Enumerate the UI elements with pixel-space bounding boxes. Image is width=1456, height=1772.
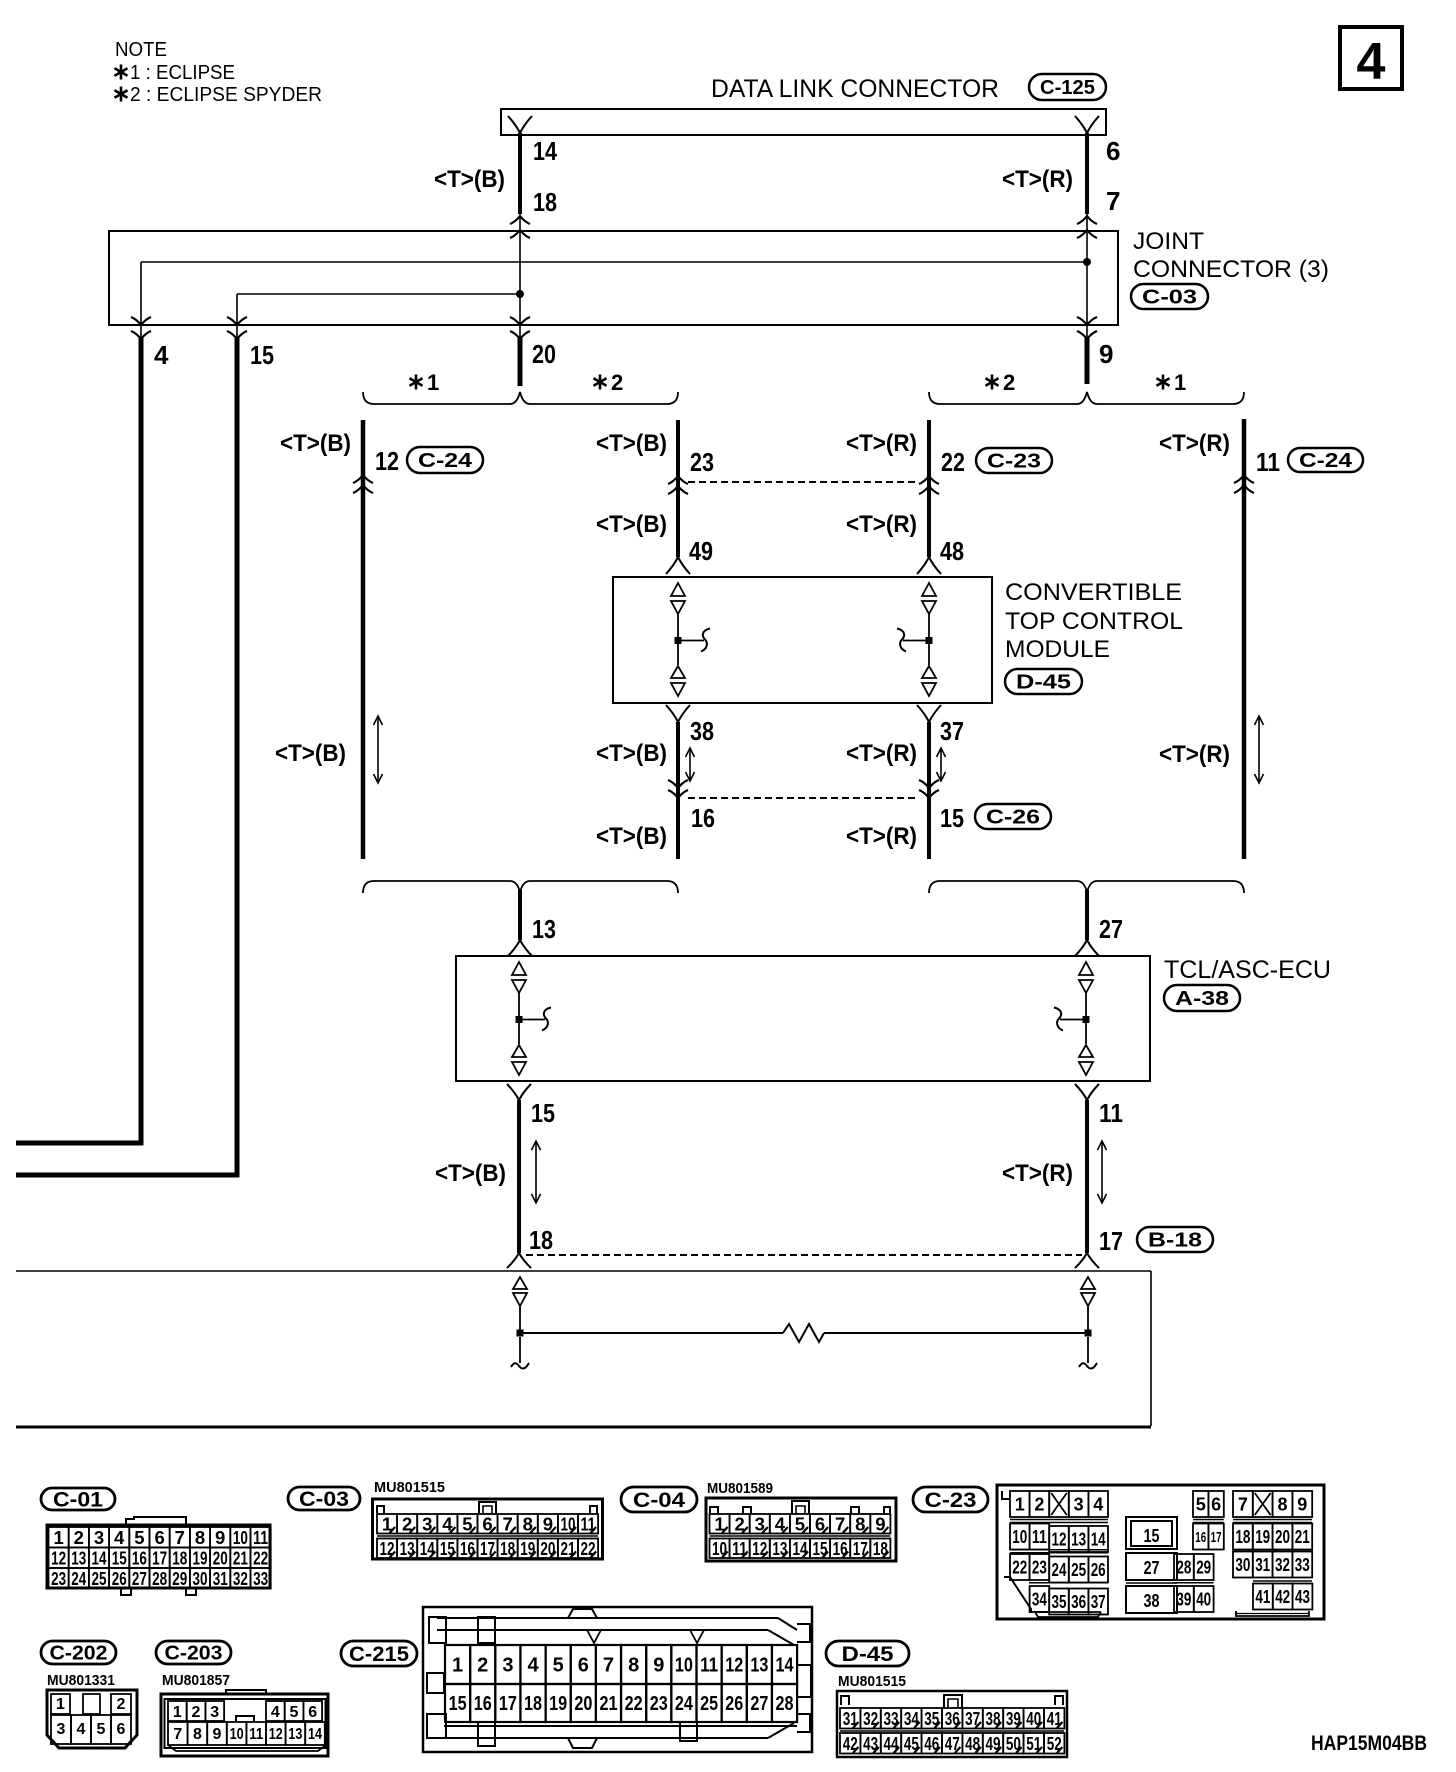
connector label C-01 bbox=[41, 1488, 115, 1510]
svg-text:1: 1 bbox=[427, 370, 439, 395]
svg-text:14: 14 bbox=[1091, 1529, 1106, 1549]
twisted pair arrow bbox=[1101, 1141, 1103, 1203]
svg-text:33: 33 bbox=[1295, 1555, 1310, 1575]
wire end squiggle right bbox=[1079, 1363, 1097, 1369]
svg-text:20: 20 bbox=[532, 339, 556, 369]
svg-text:JOINT: JOINT bbox=[1133, 228, 1204, 255]
svg-text:15: 15 bbox=[940, 803, 964, 833]
svg-text:<T>(B): <T>(B) bbox=[435, 1160, 506, 1187]
svg-text:9: 9 bbox=[653, 1655, 664, 1677]
svg-text:MODULE: MODULE bbox=[1005, 636, 1110, 663]
svg-text:15: 15 bbox=[250, 340, 274, 370]
shield terminal pin49 inside D-45 bbox=[671, 583, 710, 696]
svg-text:48: 48 bbox=[940, 536, 964, 566]
svg-text:7: 7 bbox=[1106, 186, 1120, 216]
connector chevrons C-03 pin7 bbox=[1077, 216, 1097, 224]
svg-text:6: 6 bbox=[1106, 136, 1120, 166]
fork pin 48 bbox=[917, 557, 929, 574]
svg-text:4: 4 bbox=[77, 1721, 86, 1738]
svg-text:C-03: C-03 bbox=[1142, 287, 1197, 309]
svg-text:8: 8 bbox=[628, 1655, 639, 1677]
connector label C-24 bbox=[1288, 448, 1363, 472]
connector label C-26 bbox=[975, 804, 1051, 829]
connector C-125 box bbox=[501, 109, 1106, 135]
svg-text:2: 2 bbox=[1003, 370, 1015, 395]
connector label C-03 bbox=[288, 1487, 360, 1510]
svg-text:<T>(R): <T>(R) bbox=[846, 823, 917, 850]
fork pin 38 bbox=[666, 705, 678, 722]
svg-text:19: 19 bbox=[549, 1693, 567, 1715]
svg-text:42: 42 bbox=[1275, 1587, 1290, 1607]
svg-text:37: 37 bbox=[940, 716, 964, 746]
svg-text:37: 37 bbox=[1091, 1592, 1106, 1612]
svg-text:4: 4 bbox=[1093, 1494, 1103, 1514]
svg-text:14: 14 bbox=[92, 1547, 108, 1568]
svg-text:MU801331: MU801331 bbox=[47, 1672, 115, 1689]
svg-text:TOP CONTROL: TOP CONTROL bbox=[1005, 608, 1183, 635]
joint bus wire upper bbox=[141, 261, 1087, 263]
svg-text:21: 21 bbox=[599, 1693, 617, 1715]
svg-text:25: 25 bbox=[700, 1693, 718, 1715]
svg-text:28: 28 bbox=[1176, 1557, 1191, 1577]
brace left top bbox=[363, 392, 678, 404]
label CONVERTIBLE TOP CONTROL MODULE bbox=[1005, 579, 1183, 663]
connector C-202 pinout bbox=[47, 1690, 137, 1748]
connector chevrons pin22 bbox=[919, 476, 939, 484]
svg-text:23: 23 bbox=[650, 1693, 668, 1715]
svg-text:8: 8 bbox=[193, 1726, 202, 1743]
svg-text:MU801515: MU801515 bbox=[838, 1673, 906, 1690]
svg-text:20: 20 bbox=[574, 1693, 592, 1715]
svg-text:25: 25 bbox=[92, 1568, 107, 1589]
svg-text:11: 11 bbox=[253, 1527, 268, 1548]
svg-text:30: 30 bbox=[1235, 1555, 1250, 1575]
svg-text:4: 4 bbox=[1357, 33, 1386, 91]
svg-text:3: 3 bbox=[94, 1527, 104, 1548]
svg-text:2: 2 bbox=[611, 370, 623, 395]
svg-text:3: 3 bbox=[210, 1704, 219, 1721]
twisted pair arrow bbox=[689, 748, 691, 781]
wire end squiggle left bbox=[511, 1363, 529, 1369]
svg-text:17: 17 bbox=[152, 1547, 167, 1568]
svg-text:22: 22 bbox=[1012, 1557, 1027, 1577]
svg-text:4: 4 bbox=[527, 1655, 539, 1677]
joint bus wire lower bbox=[237, 293, 520, 295]
svg-text:18: 18 bbox=[529, 1225, 553, 1255]
connector chevrons C-03 pin18 bbox=[510, 216, 530, 224]
svg-text:7: 7 bbox=[173, 1726, 182, 1743]
label JOINT CONNECTOR (3) bbox=[1133, 228, 1329, 283]
svg-text:23: 23 bbox=[1032, 1557, 1047, 1577]
svg-text:22: 22 bbox=[625, 1693, 643, 1715]
svg-text:10: 10 bbox=[230, 1726, 244, 1743]
svg-text:7: 7 bbox=[1238, 1494, 1248, 1514]
svg-text:43: 43 bbox=[1295, 1587, 1310, 1607]
svg-text:<T>(R): <T>(R) bbox=[846, 740, 917, 767]
svg-text:C-03: C-03 bbox=[299, 1488, 349, 1511]
wire A-38 pin15 to pin18 <T>(B) bbox=[517, 1100, 521, 1253]
svg-text:29: 29 bbox=[1196, 1557, 1211, 1577]
svg-text:8: 8 bbox=[195, 1527, 205, 1548]
connector label C-23 bbox=[976, 448, 1052, 473]
svg-text:C-215: C-215 bbox=[349, 1643, 409, 1666]
svg-text:1: 1 bbox=[1015, 1494, 1025, 1514]
svg-text:C-125: C-125 bbox=[1040, 77, 1095, 99]
svg-text:<T>(B): <T>(B) bbox=[596, 430, 667, 457]
connector chevrons pin23 bbox=[668, 476, 688, 484]
connector chevrons pin15 C-26 bbox=[919, 780, 939, 788]
terminating resistor bbox=[783, 1324, 824, 1342]
fork pin 37 bbox=[917, 705, 929, 722]
svg-text:6: 6 bbox=[578, 1655, 589, 1677]
svg-text:<T>(B): <T>(B) bbox=[596, 511, 667, 538]
wire inside C-03 right branch bbox=[1086, 214, 1088, 340]
convertible top control module D-45 box bbox=[613, 577, 992, 703]
svg-text:12: 12 bbox=[269, 1726, 283, 1743]
svg-text:24: 24 bbox=[71, 1568, 87, 1589]
svg-text:24: 24 bbox=[1052, 1560, 1067, 1580]
svg-text:4: 4 bbox=[154, 340, 169, 370]
note asterisk 2 bbox=[114, 87, 127, 102]
fork pin 18 bbox=[507, 1253, 519, 1268]
svg-text:CONVERTIBLE: CONVERTIBLE bbox=[1005, 579, 1182, 606]
svg-text:32: 32 bbox=[1275, 1555, 1290, 1575]
svg-text:31: 31 bbox=[1255, 1555, 1270, 1575]
connector label C-23 bbox=[913, 1487, 988, 1512]
dashed link pin18-pin17 B-18 bbox=[526, 1254, 1082, 1256]
svg-text:14: 14 bbox=[533, 136, 557, 166]
connector chevrons C-03 pin9 bbox=[1077, 317, 1097, 325]
fork pin 14 bbox=[508, 116, 520, 133]
svg-text:1: 1 bbox=[53, 1527, 63, 1548]
svg-text:<T>(B): <T>(B) bbox=[275, 740, 346, 767]
svg-text:11: 11 bbox=[1256, 447, 1280, 477]
svg-text:5: 5 bbox=[134, 1527, 144, 1548]
connector label D-45 bbox=[826, 1641, 909, 1666]
connector label A-38 bbox=[1164, 985, 1240, 1011]
svg-text:2 : ECLIPSE SPYDER: 2 : ECLIPSE SPYDER bbox=[130, 84, 322, 106]
svg-text:11: 11 bbox=[1099, 1098, 1123, 1128]
wire to A-38 pin27 bbox=[1085, 890, 1089, 940]
svg-text:13: 13 bbox=[1071, 1529, 1086, 1549]
svg-text:<T>(R): <T>(R) bbox=[1002, 166, 1073, 193]
svg-text:NOTE: NOTE bbox=[115, 39, 167, 61]
svg-text:15: 15 bbox=[449, 1693, 467, 1715]
svg-text:C-24: C-24 bbox=[1299, 450, 1353, 472]
connector chevrons C-24 pin12 bbox=[353, 475, 373, 483]
svg-text:7: 7 bbox=[603, 1655, 614, 1677]
svg-text:<T>(B): <T>(B) bbox=[596, 823, 667, 850]
svg-text:14: 14 bbox=[308, 1726, 322, 1743]
svg-text:<T>(R): <T>(R) bbox=[1002, 1160, 1073, 1187]
wire A-38 pin11 to pin17 <T>(R) bbox=[1085, 1100, 1089, 1253]
connector D-45 pinout bbox=[837, 1691, 1067, 1757]
svg-text:22: 22 bbox=[253, 1547, 268, 1568]
terminating resistor box bbox=[16, 1271, 1151, 1427]
connector chevrons C-03 pin4 bbox=[131, 317, 151, 325]
svg-text:14: 14 bbox=[776, 1655, 795, 1677]
joint connector C-03 box bbox=[109, 231, 1118, 325]
svg-text:41: 41 bbox=[1255, 1587, 1270, 1607]
svg-text:TCL/ASC-ECU: TCL/ASC-ECU bbox=[1164, 956, 1331, 984]
svg-text:<T>(B): <T>(B) bbox=[596, 740, 667, 767]
twisted pair arrow bbox=[940, 748, 942, 781]
svg-text:17: 17 bbox=[1211, 1529, 1222, 1546]
fork pin 27 bbox=[1075, 940, 1087, 956]
connector chevrons C-03 pin20 bbox=[510, 317, 530, 325]
connector C-04 pinout bbox=[706, 1498, 896, 1561]
svg-text:12: 12 bbox=[725, 1655, 743, 1677]
svg-text:38: 38 bbox=[1144, 1591, 1160, 1611]
wire to A-38 pin13 bbox=[518, 890, 522, 940]
shield terminal left in resistor box bbox=[513, 1277, 527, 1363]
svg-text:21: 21 bbox=[1295, 1527, 1310, 1547]
svg-text:<T>(R): <T>(R) bbox=[846, 511, 917, 538]
svg-text:13: 13 bbox=[71, 1547, 86, 1568]
svg-text:<T>(B): <T>(B) bbox=[434, 166, 505, 193]
svg-text:11: 11 bbox=[1032, 1527, 1047, 1547]
connector C-203 pinout bbox=[161, 1690, 328, 1756]
fork pin 11 bbox=[1075, 1084, 1087, 1100]
wire DLC pin6 to C-03 pin7 <T>(R) bbox=[1085, 133, 1089, 214]
note text bbox=[115, 39, 322, 106]
svg-text:28: 28 bbox=[152, 1568, 167, 1589]
svg-text:27: 27 bbox=[1099, 914, 1123, 944]
svg-text:25: 25 bbox=[1071, 1560, 1086, 1580]
svg-text:15: 15 bbox=[531, 1098, 555, 1128]
svg-text:20: 20 bbox=[213, 1547, 228, 1568]
shield terminal pin48 inside D-45 bbox=[897, 583, 936, 696]
svg-text:CONNECTOR (3): CONNECTOR (3) bbox=[1133, 256, 1329, 283]
svg-text:C-23: C-23 bbox=[925, 1489, 977, 1512]
svg-text:28: 28 bbox=[776, 1693, 794, 1715]
connector C-01 pinout bbox=[47, 1517, 270, 1595]
svg-text:C-203: C-203 bbox=[165, 1643, 223, 1665]
connector label B-18 bbox=[1137, 1227, 1213, 1252]
svg-text:26: 26 bbox=[112, 1568, 127, 1589]
svg-text:MU801515: MU801515 bbox=[374, 1479, 445, 1496]
svg-text:14: 14 bbox=[792, 1538, 808, 1559]
svg-text:13: 13 bbox=[750, 1655, 768, 1677]
connector label C-24 bbox=[407, 447, 483, 473]
svg-text:4: 4 bbox=[114, 1527, 125, 1548]
svg-text:10: 10 bbox=[233, 1527, 248, 1548]
wire pin37 to pin15 <T>(R) bbox=[927, 722, 931, 859]
note asterisk 1 bbox=[114, 65, 127, 80]
svg-text:<T>(B): <T>(B) bbox=[280, 430, 351, 457]
shield terminal right in resistor box bbox=[1081, 1277, 1095, 1363]
dashed link pin23-pin22 bbox=[688, 481, 919, 483]
svg-text:23: 23 bbox=[690, 447, 714, 477]
svg-text:19: 19 bbox=[1255, 1527, 1270, 1547]
svg-text:2: 2 bbox=[477, 1655, 488, 1677]
brace left bottom bbox=[363, 881, 678, 893]
svg-text:10: 10 bbox=[1012, 1527, 1027, 1547]
svg-text:16: 16 bbox=[474, 1693, 492, 1715]
svg-text:17: 17 bbox=[1099, 1226, 1123, 1256]
svg-text:18: 18 bbox=[533, 187, 557, 217]
svg-text:B-18: B-18 bbox=[1148, 1230, 1202, 1252]
svg-text:HAP15M04BB: HAP15M04BB bbox=[1311, 1732, 1427, 1755]
svg-text:9: 9 bbox=[215, 1527, 225, 1548]
svg-text:C-23: C-23 bbox=[987, 451, 1041, 473]
svg-text:18: 18 bbox=[524, 1693, 542, 1715]
connector label C-215 bbox=[341, 1641, 417, 1666]
svg-text:3: 3 bbox=[1074, 1494, 1084, 1514]
connector chevrons C-03 pin15 bbox=[227, 317, 247, 325]
connector chevrons C-24 pin11 bbox=[1234, 475, 1254, 483]
svg-text:5: 5 bbox=[97, 1721, 106, 1738]
fork pin 6 bbox=[1075, 116, 1087, 133]
svg-text:C-24: C-24 bbox=[418, 450, 473, 472]
svg-text:MU801589: MU801589 bbox=[707, 1480, 773, 1497]
svg-text:13: 13 bbox=[532, 914, 556, 944]
connector C-03 pinout bbox=[373, 1499, 603, 1559]
svg-text:C-26: C-26 bbox=[986, 807, 1040, 829]
svg-text:30: 30 bbox=[193, 1568, 208, 1589]
svg-text:D-45: D-45 bbox=[1016, 672, 1071, 694]
wire inside C-03 left branch bbox=[519, 214, 521, 340]
svg-text:C-01: C-01 bbox=[53, 1489, 103, 1512]
svg-text:38: 38 bbox=[690, 716, 714, 746]
variant label *1 right bbox=[1156, 375, 1169, 390]
wire C-03 pin4 bus to left edge bbox=[16, 338, 141, 1143]
svg-text:6: 6 bbox=[308, 1704, 317, 1721]
variant label *2 left bbox=[593, 375, 606, 390]
shield terminal pin27 inside A-38 bbox=[1054, 962, 1093, 1075]
svg-text:9: 9 bbox=[1099, 339, 1113, 369]
svg-text:A-38: A-38 bbox=[1175, 988, 1229, 1010]
svg-text:22: 22 bbox=[941, 447, 965, 477]
svg-text:26: 26 bbox=[1091, 1560, 1106, 1580]
svg-text:19: 19 bbox=[193, 1547, 208, 1568]
wire pin22 <T>(R) eclipse spyder upper bbox=[927, 420, 931, 557]
wire C-24 pin12 <T>(B) eclipse bbox=[361, 420, 366, 859]
fork pin 17 bbox=[1075, 1253, 1087, 1268]
brace right bottom bbox=[929, 881, 1244, 893]
svg-text:18: 18 bbox=[1235, 1527, 1250, 1547]
svg-text:7: 7 bbox=[175, 1527, 185, 1548]
wire pin23 <T>(B) eclipse spyder upper bbox=[676, 420, 680, 557]
svg-text:5: 5 bbox=[553, 1655, 564, 1677]
svg-text:<T>(R): <T>(R) bbox=[1159, 430, 1230, 457]
svg-text:8: 8 bbox=[1277, 1494, 1287, 1514]
svg-text:20: 20 bbox=[1275, 1527, 1290, 1547]
svg-text:1: 1 bbox=[452, 1655, 463, 1677]
connector label C-04 bbox=[621, 1487, 697, 1512]
svg-text:27: 27 bbox=[750, 1693, 768, 1715]
svg-text:12: 12 bbox=[375, 446, 399, 476]
dashed link pin16-pin15 bbox=[688, 797, 919, 799]
wire between terminals bbox=[523, 1332, 1085, 1334]
svg-text:1: 1 bbox=[173, 1704, 182, 1721]
svg-text:2: 2 bbox=[1034, 1494, 1044, 1514]
variant label *2 right bbox=[985, 375, 998, 390]
svg-text:1 : ECLIPSE: 1 : ECLIPSE bbox=[130, 62, 235, 84]
svg-text:27: 27 bbox=[132, 1568, 147, 1589]
connector chevrons pin16 bbox=[668, 780, 688, 788]
svg-text:2: 2 bbox=[192, 1704, 201, 1721]
svg-text:D-45: D-45 bbox=[842, 1643, 894, 1666]
svg-text:15: 15 bbox=[112, 1547, 127, 1568]
connector label C-125 bbox=[1029, 74, 1106, 100]
svg-text:24: 24 bbox=[675, 1693, 694, 1715]
svg-text:40: 40 bbox=[1196, 1589, 1211, 1609]
svg-text:2: 2 bbox=[74, 1527, 84, 1548]
svg-text:11: 11 bbox=[249, 1726, 263, 1743]
svg-text:DATA LINK CONNECTOR: DATA LINK CONNECTOR bbox=[711, 75, 999, 103]
svg-text:32: 32 bbox=[233, 1568, 248, 1589]
wire C-24 pin11 <T>(R) eclipse bbox=[1242, 419, 1247, 859]
svg-text:12: 12 bbox=[51, 1547, 66, 1568]
svg-text:5: 5 bbox=[1196, 1494, 1206, 1514]
junction node right bbox=[1083, 258, 1091, 266]
svg-text:17: 17 bbox=[499, 1693, 517, 1715]
shield terminal pin13 inside A-38 bbox=[512, 962, 551, 1075]
svg-text:4: 4 bbox=[271, 1704, 280, 1721]
page number 4 box bbox=[1340, 27, 1402, 91]
svg-text:6: 6 bbox=[1211, 1494, 1221, 1514]
TCL/ASC-ECU A-38 box bbox=[456, 956, 1150, 1081]
svg-text:9: 9 bbox=[213, 1726, 222, 1743]
variant label *1 left bbox=[409, 375, 422, 390]
wire pin38 to pin16 <T>(B) bbox=[676, 722, 680, 859]
svg-text:5: 5 bbox=[290, 1704, 299, 1721]
wire stub pin 9 bbox=[1085, 338, 1090, 384]
wire DLC pin14 to C-03 pin18 <T>(B) bbox=[518, 133, 522, 214]
fork pin 49 bbox=[666, 557, 678, 574]
wire stub pin 20 bbox=[518, 338, 523, 386]
svg-text:<T>(R): <T>(R) bbox=[1159, 741, 1230, 768]
connector label C-203 bbox=[156, 1641, 231, 1664]
svg-text:10: 10 bbox=[675, 1655, 693, 1677]
svg-text:<T>(R): <T>(R) bbox=[846, 430, 917, 457]
wire C-03 pin15 bus to left edge bbox=[16, 338, 237, 1175]
svg-text:9: 9 bbox=[1297, 1494, 1307, 1514]
connector C-23 pinout bbox=[997, 1485, 1324, 1619]
svg-text:1: 1 bbox=[56, 1696, 65, 1713]
junction node left bbox=[516, 290, 524, 298]
svg-text:21: 21 bbox=[233, 1547, 248, 1568]
svg-text:11: 11 bbox=[700, 1655, 718, 1677]
svg-text:16: 16 bbox=[691, 803, 715, 833]
brace right top bbox=[929, 392, 1244, 404]
twisted pair arrow bbox=[1258, 716, 1260, 783]
svg-text:3: 3 bbox=[57, 1721, 66, 1738]
connector label C-202 bbox=[41, 1641, 116, 1664]
svg-text:49: 49 bbox=[689, 536, 713, 566]
svg-text:23: 23 bbox=[51, 1568, 66, 1589]
svg-text:16: 16 bbox=[132, 1547, 147, 1568]
twisted pair arrow bbox=[377, 716, 379, 783]
svg-text:33: 33 bbox=[253, 1568, 268, 1589]
svg-text:C-202: C-202 bbox=[50, 1643, 108, 1665]
svg-text:31: 31 bbox=[213, 1568, 228, 1589]
svg-text:MU801857: MU801857 bbox=[162, 1672, 230, 1689]
fork pin 13 bbox=[508, 940, 520, 956]
connector label C-03 bbox=[1131, 284, 1208, 309]
svg-text:6: 6 bbox=[154, 1527, 164, 1548]
svg-text:15: 15 bbox=[1144, 1526, 1160, 1546]
svg-text:2: 2 bbox=[117, 1696, 126, 1713]
svg-text:34: 34 bbox=[1032, 1589, 1047, 1609]
svg-text:29: 29 bbox=[172, 1568, 187, 1589]
svg-text:C-04: C-04 bbox=[633, 1489, 685, 1512]
svg-text:13: 13 bbox=[288, 1726, 302, 1743]
fork pin 15 bbox=[507, 1084, 519, 1100]
svg-text:39: 39 bbox=[1176, 1589, 1191, 1609]
svg-text:36: 36 bbox=[1071, 1592, 1086, 1612]
